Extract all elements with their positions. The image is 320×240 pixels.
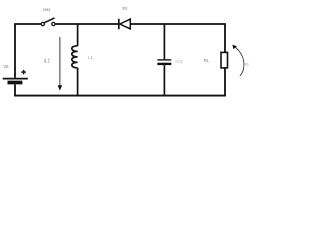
bottom rail xyxy=(14,95,226,97)
wire switch to diode xyxy=(55,23,118,25)
voltage arrow vs (arc) xyxy=(234,46,244,76)
battery VE top plate xyxy=(3,78,28,80)
svg-text:L1: L1 xyxy=(88,55,93,60)
svg-text:RL: RL xyxy=(204,58,210,63)
C1 polarity dash xyxy=(175,60,177,62)
switch CH1 right contact xyxy=(52,22,55,25)
capacitor C1 bottom plate xyxy=(157,63,171,65)
svg-text:vs: vs xyxy=(245,62,249,67)
wire resistor to bottom rail xyxy=(224,68,226,96)
battery plus sign xyxy=(21,71,26,73)
capacitor C1 top wire xyxy=(163,24,165,59)
capacitor C1 bottom wire xyxy=(163,65,165,95)
current arrow iL1 xyxy=(59,37,61,86)
svg-text:D1: D1 xyxy=(123,6,129,11)
switch CH1 lever xyxy=(44,18,54,23)
wire battery to bottom rail xyxy=(14,84,16,96)
svg-text:VE: VE xyxy=(3,64,9,69)
wire inductor bottom xyxy=(77,68,79,96)
switch CH1 left contact xyxy=(41,22,44,25)
node inductor top xyxy=(77,24,79,46)
capacitor C1 top plate xyxy=(157,59,171,61)
resistor RL box xyxy=(221,52,228,68)
wire top-left segment xyxy=(15,24,41,78)
diode D1 triangle xyxy=(120,19,131,29)
svg-text:CH1: CH1 xyxy=(43,7,51,12)
svg-text:C1: C1 xyxy=(177,59,183,64)
svg-text:iL1: iL1 xyxy=(44,59,50,65)
wire diode to top-right corner xyxy=(130,24,225,52)
inductor L1 coil xyxy=(72,46,78,68)
battery VE bottom plate xyxy=(8,81,23,85)
diode D1 cathode bar xyxy=(118,19,120,29)
